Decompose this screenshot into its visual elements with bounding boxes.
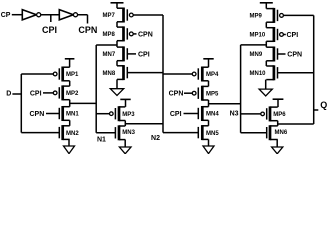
svg-text:N2: N2 [151, 135, 160, 142]
svg-text:CPN: CPN [287, 52, 302, 59]
svg-text:MP6: MP6 [273, 112, 286, 118]
svg-text:MN4: MN4 [206, 112, 219, 118]
svg-text:MN7: MN7 [103, 52, 116, 58]
svg-text:N3: N3 [230, 111, 239, 118]
svg-text:CP: CP [1, 12, 11, 19]
svg-text:MP8: MP8 [103, 32, 116, 38]
svg-text:MP3: MP3 [122, 112, 135, 118]
svg-text:CPN: CPN [169, 91, 184, 98]
svg-text:MN3: MN3 [122, 130, 135, 136]
svg-text:CPI: CPI [138, 51, 150, 58]
svg-text:CPN: CPN [78, 25, 97, 35]
svg-text:N1: N1 [97, 137, 106, 144]
svg-text:MN9: MN9 [250, 52, 263, 58]
svg-text:D: D [6, 91, 11, 98]
svg-text:Q: Q [320, 100, 327, 110]
svg-text:MN10: MN10 [250, 71, 267, 77]
svg-text:MP5: MP5 [206, 91, 219, 97]
svg-text:MP9: MP9 [250, 14, 263, 20]
svg-text:MP2: MP2 [66, 91, 79, 97]
svg-text:MP4: MP4 [206, 72, 219, 78]
svg-text:CPI: CPI [170, 111, 182, 118]
svg-text:CPN: CPN [30, 111, 45, 118]
svg-text:MN1: MN1 [66, 112, 79, 118]
svg-text:CPI: CPI [287, 32, 299, 39]
svg-text:MN5: MN5 [206, 131, 219, 137]
svg-text:CPI: CPI [42, 25, 57, 35]
svg-text:MN2: MN2 [66, 131, 79, 137]
svg-text:MN8: MN8 [103, 71, 116, 77]
svg-text:MP1: MP1 [66, 72, 79, 78]
svg-text:MP10: MP10 [250, 33, 266, 39]
svg-text:MP7: MP7 [103, 13, 116, 19]
svg-text:MN6: MN6 [275, 130, 288, 136]
svg-text:CPI: CPI [30, 90, 42, 97]
svg-text:CPN: CPN [138, 31, 153, 38]
